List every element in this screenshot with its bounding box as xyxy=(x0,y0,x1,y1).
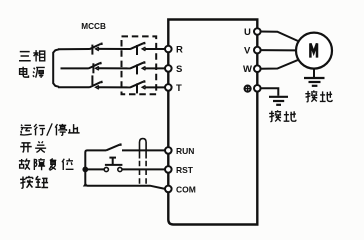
label 运行/停止 开关 故障复位 按钮 xyxy=(19,123,80,188)
motor ground wire xyxy=(313,69,315,78)
wire MCCB pole3 to contactor xyxy=(98,86,130,88)
svg-text:MCCB: MCCB xyxy=(81,22,106,31)
wire L1 to MCCB xyxy=(58,48,90,50)
terminal W xyxy=(254,65,261,72)
wire MCCB pole2 to contactor xyxy=(98,67,130,69)
wire MCCB pole1 to contactor xyxy=(98,48,130,50)
terminal PE (ground) xyxy=(254,85,261,92)
fault reset push button PB1 xyxy=(104,157,122,171)
terminal U xyxy=(254,28,261,35)
terminal V xyxy=(254,47,261,54)
motor ground label 接地 xyxy=(305,90,332,101)
motor M1 xyxy=(296,33,332,69)
MCCB pole 3 xyxy=(89,75,102,89)
earth mark at PE terminal xyxy=(244,85,251,92)
svg-text:U: U xyxy=(244,27,251,38)
wire L3 to MCCB xyxy=(58,86,90,88)
svg-text:W: W xyxy=(243,64,252,75)
wire U to motor xyxy=(260,32,298,41)
terminal RST xyxy=(165,166,172,173)
contactor pole 3 xyxy=(130,81,146,93)
wire W to motor xyxy=(260,60,298,69)
bus foot xyxy=(83,183,88,187)
inverter ground wire xyxy=(261,88,279,96)
contactor dashed box xyxy=(122,36,157,94)
control bus vertical wire xyxy=(85,150,165,189)
wire contactor to terminal S xyxy=(145,67,166,69)
wire L2 to MCCB xyxy=(61,67,89,69)
svg-text:COM: COM xyxy=(176,184,196,194)
terminal RUN xyxy=(165,147,172,154)
inverter box xyxy=(168,20,257,225)
wire SW1 to RUN terminal xyxy=(122,149,165,151)
wire bus to reset button xyxy=(85,168,104,170)
wire contactor to terminal R xyxy=(145,48,166,50)
wire PB1 to RST terminal xyxy=(122,168,165,170)
terminal R xyxy=(165,46,172,53)
contactor pole 2 xyxy=(130,62,146,74)
label 三相电源 (three-phase supply) xyxy=(19,50,45,78)
contactor pole 1 xyxy=(130,43,146,55)
inverter ground symbol xyxy=(269,97,288,105)
wire contactor to terminal T xyxy=(145,86,166,88)
shielded cable arch xyxy=(140,139,147,185)
MCCB pole 2 xyxy=(88,63,101,73)
inverter ground label 接地 xyxy=(269,110,296,121)
terminal COM xyxy=(165,186,172,193)
three-phase source bracket xyxy=(53,49,59,87)
svg-text:V: V xyxy=(244,46,251,57)
svg-text:R: R xyxy=(176,45,183,56)
svg-text:RUN: RUN xyxy=(176,146,194,156)
wire V to motor xyxy=(260,49,296,51)
run/stop switch SW1 xyxy=(106,144,122,150)
terminal S xyxy=(165,65,172,72)
svg-text:S: S xyxy=(176,64,182,75)
terminal T xyxy=(165,84,172,91)
svg-text:RST: RST xyxy=(176,165,194,175)
junction dot at RST branch xyxy=(82,167,88,173)
svg-text:T: T xyxy=(176,83,182,94)
MCCB pole 1 xyxy=(89,44,102,55)
motor ground symbol xyxy=(304,78,325,86)
